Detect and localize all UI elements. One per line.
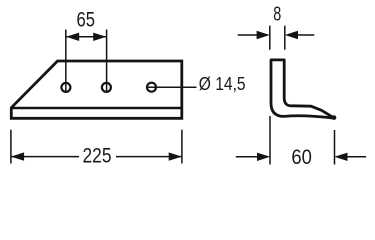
dimension 225 line with arrows bbox=[11, 152, 182, 160]
svg-text:8: 8 bbox=[273, 2, 281, 25]
dimension text 60 bbox=[291, 146, 312, 169]
hole 3 bbox=[147, 83, 156, 92]
dimension 8 arrows outside bbox=[238, 31, 315, 39]
svg-text:60: 60 bbox=[291, 146, 312, 169]
label diameter 14,5 bbox=[199, 73, 246, 94]
dimension text 65 bbox=[77, 8, 96, 31]
plate outline (left view) bbox=[11, 61, 182, 118]
hole 1 bbox=[61, 83, 70, 92]
dimension text 225 bbox=[83, 144, 112, 167]
angle profile outline (right view) bbox=[271, 60, 336, 120]
svg-text:65: 65 bbox=[77, 8, 96, 31]
svg-text:225: 225 bbox=[83, 144, 112, 167]
dimension 225 extension lines bbox=[11, 130, 182, 164]
leader line for hole diameter bbox=[147, 86, 197, 88]
dimension 60 extension lines bbox=[270, 116, 335, 165]
dimension 65 line with arrows bbox=[66, 33, 106, 41]
svg-text:Ø 14,5: Ø 14,5 bbox=[199, 73, 246, 94]
bevel line on plate bbox=[11, 107, 182, 109]
hole 2 bbox=[102, 83, 111, 92]
dimension 65 extension lines bbox=[66, 30, 107, 92]
dimension 60 arrows outside bbox=[236, 153, 366, 161]
dimension 8 extension lines bbox=[270, 26, 285, 50]
dimension text 8 bbox=[273, 2, 281, 25]
